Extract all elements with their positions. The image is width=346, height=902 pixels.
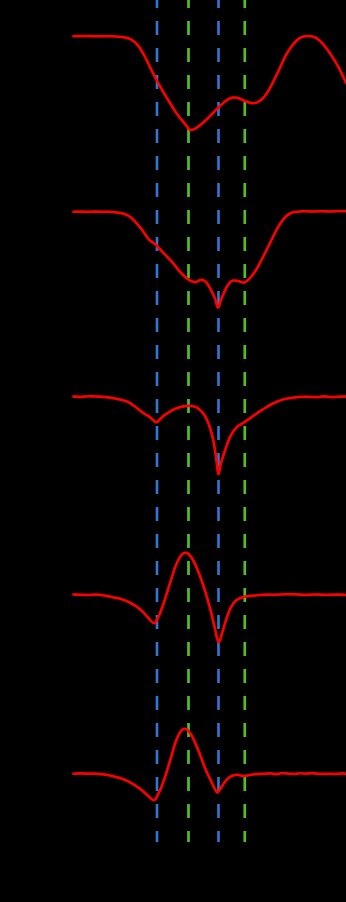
dashed guide line V1 (blue) at x=157 <box>156 0 159 842</box>
spectrum curve 1 (top, red) <box>74 36 346 130</box>
dashed guide line V4 (green) at x=244.8 <box>243 0 246 842</box>
dashed guide line V2 (green) at x=188.5 <box>187 0 190 842</box>
dashed guide line V3 (blue) at x=218.5 <box>217 0 220 842</box>
spectrum curve 4 (red) <box>74 553 346 642</box>
spectrum curve 2 (red) <box>74 211 346 307</box>
spectrum curve 5 (bottom, red) <box>74 729 346 800</box>
spectrum curve 3 (middle, red) <box>74 396 346 474</box>
